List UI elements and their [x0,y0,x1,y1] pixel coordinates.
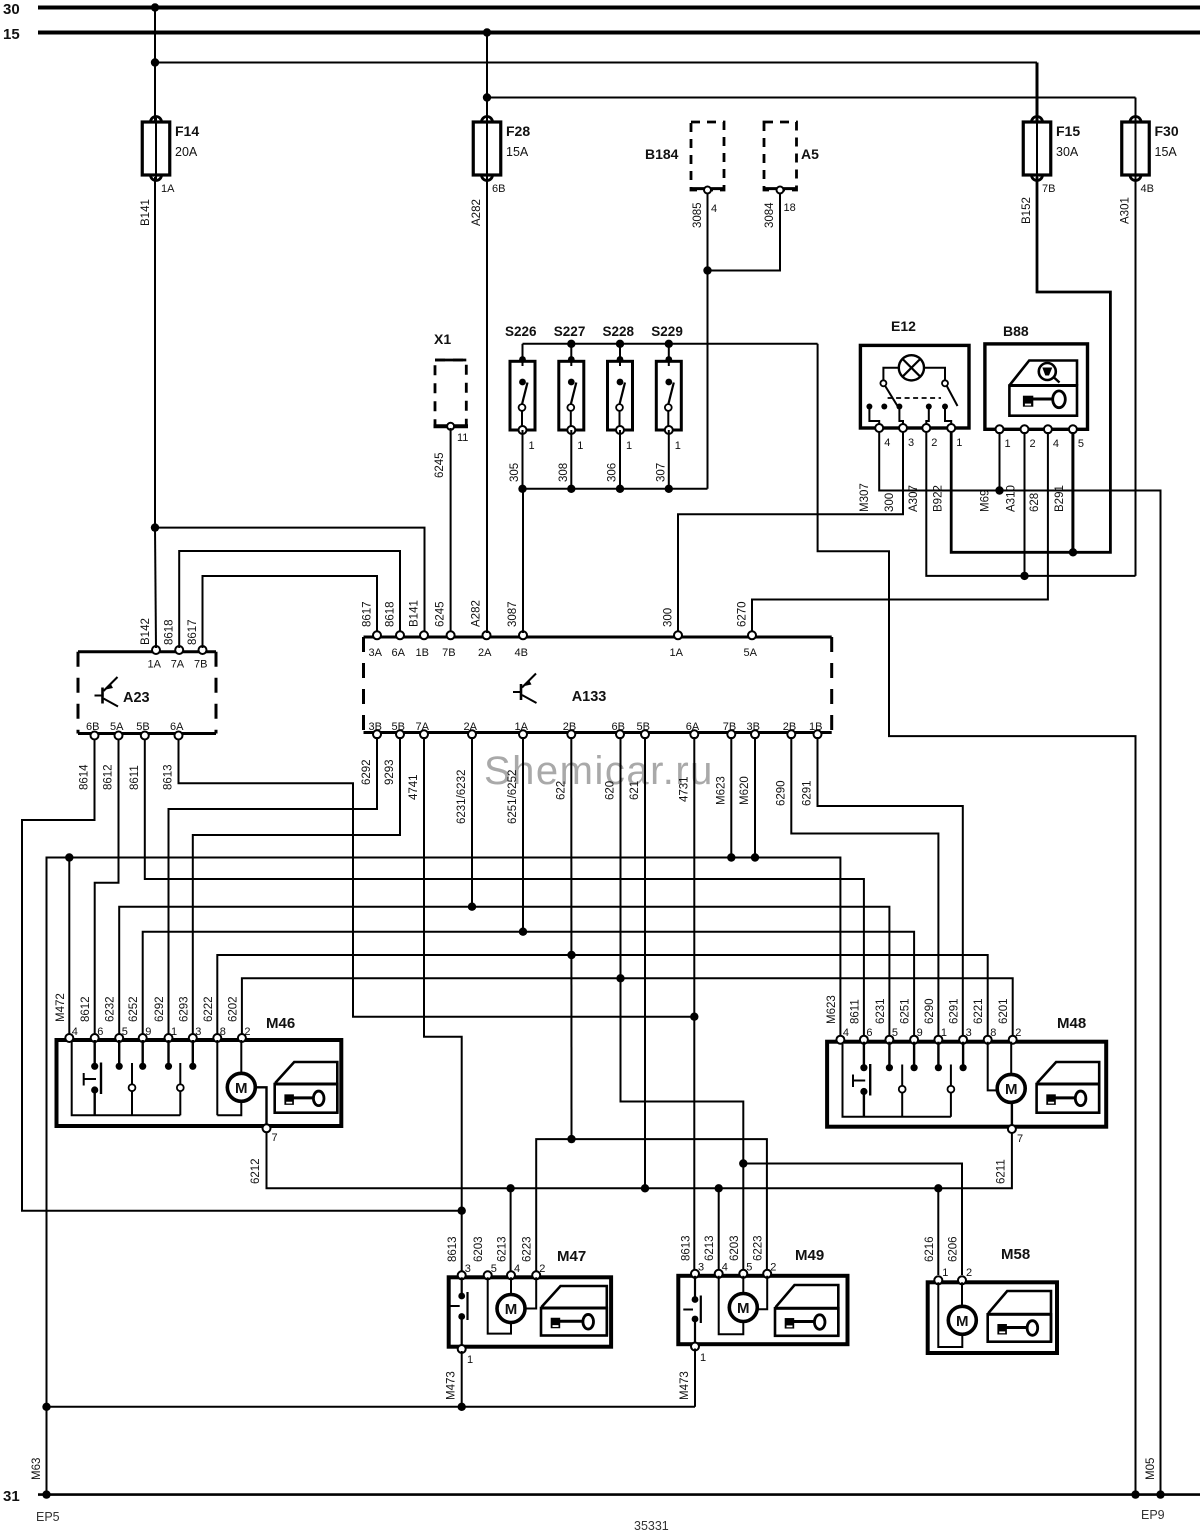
M48 door lock icon [1037,1062,1099,1113]
svg-text:1B: 1B [416,647,429,659]
svg-text:30: 30 [3,1,20,18]
svg-text:4741: 4741 [408,774,420,800]
svg-text:A133: A133 [572,689,607,705]
E12 contacts [883,368,898,380]
svg-text:A23: A23 [123,690,150,706]
svg-text:A282: A282 [471,600,483,627]
svg-text:A310: A310 [1006,485,1018,512]
svg-text:620: 620 [605,781,617,800]
E12 pin hooks [869,407,879,429]
wire M05 to bus 31 [1156,1490,1164,1498]
svg-text:M307: M307 [859,483,871,512]
svg-text:8614: 8614 [79,764,91,790]
wire 6231/6232 A133 2A to M46 pin5 / M48 pin5 [471,737,473,907]
svg-text:3: 3 [908,437,914,449]
svg-text:6B: 6B [86,721,99,733]
svg-text:M: M [505,1301,518,1318]
svg-text:8618: 8618 [385,601,397,627]
M49 thermal contact [694,1276,696,1300]
svg-text:1A: 1A [515,721,529,733]
svg-text:7: 7 [1017,1133,1023,1145]
svg-text:M: M [737,1300,750,1317]
wire 4731 A133 6A joins 8613 line [693,737,695,1272]
wire 9293 A133 5B to M46 pin3 [193,737,400,1035]
wire 305 [522,430,524,489]
svg-text:9: 9 [145,1026,151,1038]
svg-text:1: 1 [1005,438,1011,450]
svg-text:X1: X1 [434,331,451,347]
svg-text:6213: 6213 [704,1235,716,1261]
svg-text:6221: 6221 [973,998,985,1024]
svg-text:6251/6252: 6251/6252 [507,770,519,824]
svg-text:8613: 8613 [681,1235,693,1261]
M49 pin 1 / M473 [691,1343,699,1351]
svg-text:9293: 9293 [384,759,396,785]
svg-text:7B: 7B [194,659,207,671]
svg-text:A301: A301 [1120,197,1132,224]
svg-text:5: 5 [122,1026,128,1038]
wire 622 A133 2B to M46 pin8 / M48 pin8 and 6223 line [570,737,572,1139]
svg-text:8613: 8613 [447,1236,459,1262]
wire 8617 A23 7B to A133 3A [203,576,378,648]
svg-text:6: 6 [97,1026,103,1038]
wire M307/M69 ground run [879,432,1160,1495]
svg-text:3084: 3084 [764,202,776,228]
svg-text:6232: 6232 [105,996,117,1022]
wire B142 F14 to A23 1A [154,177,156,528]
svg-text:1: 1 [577,440,583,452]
wire 6245 [450,428,452,633]
M47 thermal contact [461,1277,463,1296]
svg-text:M63: M63 [31,1458,43,1480]
M48 thermal contact [863,1042,865,1068]
svg-text:9: 9 [917,1027,923,1039]
svg-text:1: 1 [675,440,681,452]
switch return bus bottom [523,488,708,490]
wire M623 A133 7B to ground line [730,737,732,858]
svg-text:3085: 3085 [692,202,704,228]
svg-text:F14: F14 [175,123,199,139]
svg-text:M623: M623 [826,995,838,1024]
svg-text:1A: 1A [670,647,684,659]
M48 internal rail [843,1044,951,1117]
svg-text:1A: 1A [161,183,175,195]
M47 pin 1 / M473 [458,1345,466,1353]
svg-text:M49: M49 [795,1247,824,1264]
wire down to switch return bus [707,271,709,489]
M48 pin 7 [1008,1125,1016,1133]
svg-text:628: 628 [1029,493,1041,512]
svg-text:15: 15 [3,26,20,43]
svg-text:S227: S227 [554,324,586,339]
svg-text:4: 4 [722,1262,728,1274]
svg-text:M58: M58 [1001,1246,1030,1263]
wire 8614 A23 6B to M47 feed line [22,739,462,1211]
svg-text:6B: 6B [492,183,505,195]
svg-text:6216: 6216 [924,1236,936,1262]
svg-text:4: 4 [1053,438,1059,450]
fuse F30 15A [1135,118,1137,179]
wire from bus 30 to F14 [154,8,156,123]
wire 6290 A133 2B to M48 pin1 [791,737,938,1035]
wire 300 E12 pin3 to A133 1A [678,432,903,633]
M46 internal rail [72,1042,181,1115]
wire 8613 A23 6A to M49 pin3 [179,739,695,1017]
wire 6213 to M47 pin4 [510,1188,512,1272]
svg-text:A307: A307 [908,485,920,512]
svg-text:18: 18 [784,202,796,214]
M46 motor [216,1040,218,1115]
svg-text:6291: 6291 [949,998,961,1024]
svg-text:6270: 6270 [737,601,749,627]
wire 6292 A133 3B to M46 pin1 [169,737,378,1035]
svg-text:S226: S226 [505,324,537,339]
svg-text:308: 308 [558,463,570,482]
svg-text:6251: 6251 [900,998,912,1024]
node join 3085/3084 [703,266,711,274]
svg-text:M46: M46 [266,1015,295,1032]
svg-text:B88: B88 [1003,323,1029,339]
svg-text:8612: 8612 [80,996,92,1022]
wire 628/6270 B88 pin4 to A133 5A [752,432,1048,633]
svg-text:622: 622 [555,781,567,800]
wire 4741 A133 7A to M47 pin3 [424,737,462,1272]
svg-text:5A: 5A [110,721,124,733]
svg-text:5: 5 [1078,438,1084,450]
M47 motor [488,1277,511,1333]
svg-text:3: 3 [195,1026,201,1038]
wire 6223 line to M47/M49 pin2 [536,1139,767,1272]
wire 621 A133 5B to motor feed line [644,737,646,1188]
svg-text:B141: B141 [140,199,152,226]
wire 3085 [707,193,709,271]
svg-text:7B: 7B [442,647,455,659]
svg-text:A5: A5 [801,146,819,162]
svg-text:6252: 6252 [128,996,140,1022]
fuse F28 15A [486,118,488,179]
svg-text:6206: 6206 [948,1236,960,1262]
svg-text:3: 3 [698,1262,704,1274]
wire A307/A310 to F30 [926,432,1135,576]
svg-text:2A: 2A [478,647,492,659]
M46 switch contacts [118,1040,120,1066]
wire 6212/6213 motor feed line [267,1133,1012,1189]
B88 key [1053,391,1066,408]
feed line to F30 [487,97,1136,99]
svg-text:305: 305 [509,463,521,482]
svg-text:6245: 6245 [435,601,447,627]
wire 6291 A133 1B to M48 pin3 [818,737,963,1035]
svg-text:6203: 6203 [729,1235,741,1261]
svg-text:6292: 6292 [361,759,373,785]
E12 terminal posts [866,404,872,410]
svg-text:2B: 2B [563,721,576,733]
svg-text:M48: M48 [1057,1015,1086,1032]
svg-text:6: 6 [866,1027,872,1039]
svg-text:5B: 5B [136,721,149,733]
svg-text:M472: M472 [55,993,67,1022]
svg-text:1: 1 [626,440,632,452]
svg-text:4: 4 [514,1263,520,1275]
M58 door lock icon [988,1291,1051,1342]
svg-text:8: 8 [990,1027,996,1039]
svg-text:B922: B922 [933,485,945,512]
svg-text:3B: 3B [747,721,760,733]
svg-text:5B: 5B [637,721,650,733]
switch feed bus top [523,343,818,345]
M58 motor [938,1282,962,1347]
B88 door with lock [1010,361,1077,386]
svg-text:1: 1 [956,437,962,449]
svg-text:F15: F15 [1056,123,1080,139]
svg-text:EP9: EP9 [1141,1508,1165,1522]
svg-text:6A: 6A [392,647,406,659]
svg-text:M47: M47 [557,1248,586,1265]
svg-text:6292: 6292 [154,996,166,1022]
svg-text:1: 1 [529,440,535,452]
svg-text:2: 2 [1015,1027,1021,1039]
M48 motor output to pin 7 [1011,1103,1013,1125]
svg-text:8617: 8617 [362,601,374,627]
svg-text:M: M [235,1080,248,1097]
svg-text:7: 7 [272,1132,278,1144]
svg-text:6211: 6211 [996,1159,1008,1184]
svg-text:35331: 35331 [634,1519,669,1533]
svg-text:15A: 15A [1155,145,1178,159]
svg-text:5B: 5B [392,721,405,733]
svg-text:7B: 7B [723,721,736,733]
svg-text:3087: 3087 [507,601,519,627]
svg-text:7A: 7A [416,721,430,733]
M46 door lock icon [275,1062,337,1113]
M46 thermal contact [93,1040,95,1066]
svg-text:F30: F30 [1155,123,1179,139]
svg-text:6222: 6222 [203,996,215,1022]
svg-text:1: 1 [467,1354,473,1366]
svg-text:8613: 8613 [163,764,175,790]
wire 8612 A23 5A to M46 pin6 [95,739,119,1035]
svg-text:B291: B291 [1054,485,1066,512]
svg-text:6B: 6B [612,721,625,733]
B88 pins [996,425,1004,433]
svg-text:6293: 6293 [178,996,190,1022]
svg-text:EP5: EP5 [36,1510,60,1524]
svg-text:5A: 5A [744,647,758,659]
svg-text:1B: 1B [809,721,822,733]
svg-text:8612: 8612 [103,764,115,790]
svg-text:1: 1 [700,1352,706,1364]
svg-text:A282: A282 [471,199,483,226]
svg-text:6245: 6245 [434,452,446,478]
wire 308 [570,430,572,489]
svg-text:300: 300 [663,608,675,627]
wire 6203/6206 line M49 pin5 to M58 pin2 [743,1164,962,1276]
wire 3087 to A133 4B [522,489,524,633]
svg-text:1: 1 [941,1027,947,1039]
wire 8611 A23 5B to M48 pin6 [145,739,864,1035]
svg-text:6291: 6291 [802,780,814,806]
svg-text:M: M [1005,1081,1018,1098]
svg-text:6290: 6290 [775,780,787,806]
svg-text:B152: B152 [1021,197,1033,224]
svg-text:3: 3 [465,1263,471,1275]
wire 306 [619,430,621,489]
svg-text:6201: 6201 [998,998,1010,1024]
svg-text:M623: M623 [715,776,727,805]
svg-text:6203: 6203 [473,1236,485,1262]
M48 switch contacts [888,1042,890,1068]
svg-text:5: 5 [892,1027,898,1039]
svg-text:4: 4 [843,1027,849,1039]
svg-text:20A: 20A [175,145,198,159]
svg-text:M05: M05 [1145,1458,1157,1480]
M46 motor output to pin 7 [256,1087,267,1124]
svg-text:31: 31 [3,1488,20,1505]
svg-text:2: 2 [931,437,937,449]
svg-text:F28: F28 [506,123,530,139]
wire B141 to A133 1B [155,528,425,633]
wire from switch feed bus down and across [818,344,1136,1495]
svg-text:621: 621 [629,781,641,800]
svg-text:4: 4 [711,203,717,215]
svg-text:6A: 6A [686,721,700,733]
wire 8618 A23 7A to A133 6A [179,551,400,648]
svg-text:S229: S229 [651,324,683,339]
wire M63 to bus 31 [42,1490,50,1498]
feed line to F15 [155,62,1037,64]
wire 6216 to M58 pin1 [937,1188,939,1275]
svg-text:11: 11 [457,432,468,444]
svg-text:1: 1 [171,1026,177,1038]
svg-text:M473: M473 [679,1371,691,1400]
ground line M472/M623/M620 [47,858,841,1495]
svg-text:8617: 8617 [187,619,199,645]
svg-text:5: 5 [491,1263,497,1275]
svg-text:4B: 4B [1141,183,1154,195]
M48 motor [988,1042,997,1091]
svg-text:1A: 1A [148,659,162,671]
svg-text:B184: B184 [645,146,679,162]
M49 door lock icon [776,1285,839,1336]
svg-text:15A: 15A [506,145,529,159]
E12 lamp [899,355,924,380]
svg-text:2: 2 [966,1267,972,1279]
wire from bus 15 to F28 [486,33,488,123]
svg-text:6202: 6202 [227,996,239,1022]
svg-text:8618: 8618 [164,619,176,645]
svg-text:6223: 6223 [753,1235,765,1261]
svg-text:2: 2 [1030,438,1036,450]
svg-text:4B: 4B [515,647,528,659]
svg-text:6231: 6231 [875,998,887,1024]
M47 door lock icon [542,1286,607,1336]
svg-text:307: 307 [655,463,667,482]
svg-text:B141: B141 [409,600,421,627]
svg-text:7A: 7A [171,659,185,671]
svg-text:2: 2 [244,1026,250,1038]
svg-text:M473: M473 [446,1371,458,1400]
wire 620 A133 6B to M46 pin2 / M48 pin2 and M49 pin5 run [621,737,744,1164]
svg-text:B142: B142 [140,618,152,645]
svg-text:S228: S228 [603,324,635,339]
connector A133 [364,636,832,639]
svg-text:6223: 6223 [522,1236,534,1262]
connector A23 [78,650,216,653]
svg-text:8611: 8611 [129,765,141,790]
svg-text:4: 4 [884,437,890,449]
svg-text:3A: 3A [369,647,383,659]
svg-text:6231/6232: 6231/6232 [456,770,468,824]
svg-text:M620: M620 [739,776,751,805]
svg-text:3: 3 [966,1027,972,1039]
svg-text:8611: 8611 [849,999,861,1024]
svg-text:5: 5 [746,1262,752,1274]
svg-text:306: 306 [607,463,619,482]
svg-text:M69: M69 [980,490,992,512]
svg-text:4: 4 [72,1026,78,1038]
svg-text:8: 8 [220,1026,226,1038]
svg-text:30A: 30A [1056,145,1079,159]
svg-text:6A: 6A [170,721,184,733]
fuse F15 30A [1036,118,1038,179]
svg-text:6290: 6290 [924,998,936,1024]
svg-text:6212: 6212 [250,1158,262,1184]
svg-text:6213: 6213 [497,1236,509,1262]
svg-text:2: 2 [770,1262,776,1274]
wire A282 F28 to A133 2A [486,177,488,633]
svg-text:2: 2 [539,1263,545,1275]
svg-text:1: 1 [942,1267,948,1279]
ground line M473 [47,1406,696,1408]
svg-text:M: M [956,1313,969,1330]
M49 motor [719,1276,744,1334]
svg-text:300: 300 [884,493,896,512]
M46 pin 7 [263,1124,271,1132]
wire M620 A133 3B to ground line [754,737,756,858]
fuse F14 20A [155,118,157,179]
svg-text:3B: 3B [369,721,382,733]
svg-text:2A: 2A [464,721,478,733]
wire 3084 [708,193,781,271]
wire B922/B291 to F15 [951,177,1110,552]
svg-text:4731: 4731 [678,776,690,802]
svg-text:E12: E12 [891,318,916,334]
svg-text:2B: 2B [783,721,796,733]
wire 6213 to M49 pin4 [718,1188,720,1270]
wire 307 [668,430,670,489]
wire 6251/6252 A133 1A to M46 pin9 / M48 pin9 [522,737,524,932]
svg-text:7B: 7B [1042,183,1055,195]
